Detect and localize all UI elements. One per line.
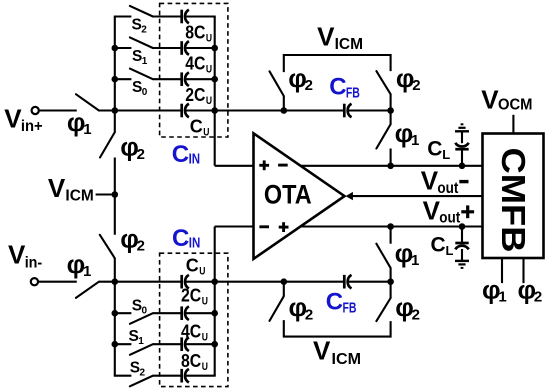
- svg-text:IN: IN: [189, 236, 201, 252]
- svg-text:2: 2: [137, 146, 145, 163]
- svg-text:8C: 8C: [181, 351, 201, 371]
- svg-text:U: U: [203, 127, 209, 139]
- svg-text:OCM: OCM: [498, 96, 533, 113]
- svg-text:2: 2: [305, 306, 313, 323]
- svg-text:ICM: ICM: [332, 351, 362, 368]
- svg-text:V: V: [317, 21, 335, 51]
- svg-text:1: 1: [498, 289, 506, 306]
- svg-text:U: U: [202, 296, 208, 308]
- svg-text:in+: in+: [21, 118, 43, 135]
- svg-text:C: C: [427, 137, 442, 160]
- svg-text:2C: 2C: [185, 85, 205, 105]
- svg-text:U: U: [206, 64, 212, 76]
- svg-text:V: V: [313, 336, 331, 366]
- svg-text:U: U: [206, 95, 212, 107]
- svg-text:ICM: ICM: [65, 188, 93, 205]
- svg-text:1: 1: [83, 263, 91, 280]
- svg-text:L: L: [442, 147, 450, 162]
- svg-text:2: 2: [141, 24, 147, 35]
- svg-text:U: U: [206, 32, 212, 44]
- svg-text:C: C: [172, 141, 189, 168]
- svg-text:FB: FB: [346, 86, 360, 102]
- svg-text:0: 0: [142, 87, 148, 98]
- svg-text:U: U: [202, 361, 208, 373]
- svg-text:1: 1: [142, 56, 148, 67]
- svg-text:CMFB: CMFB: [495, 148, 532, 253]
- svg-text:1: 1: [411, 252, 419, 269]
- svg-text:out: out: [439, 210, 461, 227]
- svg-text:V: V: [421, 166, 439, 196]
- svg-text:out: out: [437, 180, 459, 197]
- svg-text:V: V: [481, 84, 499, 114]
- svg-text:2: 2: [534, 289, 542, 306]
- svg-text:U: U: [202, 332, 208, 344]
- svg-text:C: C: [431, 233, 446, 256]
- svg-text:V: V: [4, 103, 22, 133]
- svg-text:2: 2: [140, 368, 146, 379]
- svg-text:2: 2: [137, 238, 145, 255]
- svg-text:V: V: [8, 240, 26, 270]
- svg-text:ICM: ICM: [335, 36, 363, 53]
- svg-text:C: C: [190, 117, 203, 137]
- svg-text:4C: 4C: [181, 322, 201, 342]
- svg-text:V: V: [423, 195, 441, 225]
- svg-text:2: 2: [412, 77, 420, 94]
- svg-text:U: U: [199, 265, 205, 277]
- svg-text:2C: 2C: [181, 286, 201, 306]
- svg-text:OTA: OTA: [264, 180, 312, 210]
- svg-text:V: V: [48, 173, 66, 203]
- svg-text:C: C: [326, 289, 343, 316]
- svg-text:C: C: [329, 74, 346, 101]
- svg-text:2: 2: [412, 306, 420, 323]
- svg-text:4C: 4C: [185, 54, 205, 74]
- svg-text:C: C: [172, 225, 189, 252]
- svg-text:1: 1: [83, 121, 91, 138]
- svg-text:1: 1: [138, 336, 144, 347]
- svg-text:8C: 8C: [185, 22, 205, 42]
- svg-text:in-: in-: [25, 254, 43, 271]
- svg-text:FB: FB: [343, 301, 357, 317]
- svg-text:C: C: [186, 255, 199, 275]
- svg-text:L: L: [446, 243, 454, 258]
- svg-text:0: 0: [142, 306, 148, 317]
- svg-text:IN: IN: [189, 151, 201, 167]
- svg-text:1: 1: [411, 132, 419, 149]
- svg-text:2: 2: [305, 77, 313, 94]
